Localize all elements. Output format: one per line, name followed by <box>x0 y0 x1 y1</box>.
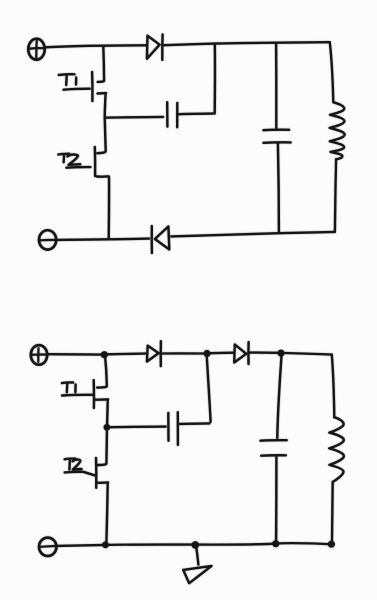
capacitor C3 (flying, bottom circuit) <box>110 357 210 445</box>
label T1 (top circuit) <box>59 74 90 89</box>
terminal V+ (bottom circuit) <box>31 345 47 365</box>
wire T2 drain lead (bottom circuit) <box>98 431 107 466</box>
junction node B (top rail, C3 tap) <box>203 350 210 357</box>
inductor L2 <box>329 417 344 482</box>
wire right rail upper (corner to L1) <box>330 42 334 102</box>
transistor T1 (top circuit) <box>92 72 106 117</box>
wire bottom-right (bottom corner to D2 triangle, node at C2 lead) <box>171 232 335 237</box>
capacitor C2 (output, top circuit) <box>263 43 290 233</box>
wire (V+ to node A, bottom circuit) <box>48 353 102 356</box>
wire right rail lower (L2 to node G) <box>331 482 334 541</box>
ground <box>183 547 211 584</box>
label T2 (top circuit) <box>58 154 90 168</box>
transistor T1 (bottom circuit) <box>94 380 108 424</box>
wire right rail lower (L1 to bottom wire) <box>335 159 336 232</box>
wire (node C to top-right corner, bottom circuit) <box>285 353 332 355</box>
junction node C (top rail, C4 tap) <box>277 350 284 357</box>
wire T1 drain lead (bottom circuit) <box>97 358 107 388</box>
terminal V- (top circuit) <box>39 230 56 249</box>
label T1 (bottom circuit) <box>62 382 94 395</box>
junction node A (top rail, T1 drain tap) <box>101 351 108 358</box>
diode D4 <box>234 342 248 364</box>
inductor L1 <box>330 102 345 159</box>
wire T1 drain lead (top circuit) <box>98 46 105 82</box>
wire bottom-left (V- to D2 bar, node at T2 source) <box>56 239 149 240</box>
junction node G (bottom rail right end) <box>328 541 335 548</box>
junction node D (bottom rail, T2 source tap) <box>102 541 109 548</box>
terminal V- (bottom circuit) <box>39 538 57 556</box>
diode D1 <box>147 35 163 60</box>
wire top (D1 cathode to top-right corner, node at C1 riser) <box>164 42 329 45</box>
wire bottom rail (V- to node G) <box>57 543 332 546</box>
terminal V+ (top circuit) <box>28 39 44 60</box>
capacitor C4 (output, bottom circuit) <box>260 356 286 542</box>
wire right rail upper (corner to L2, bottom circuit) <box>332 355 335 418</box>
wire (node A to D3 anode) <box>108 352 147 355</box>
wire top-left (V+ to D1 anode, node at T1 drain tap) <box>45 45 146 47</box>
junction node E (bottom rail, ground tap) <box>192 541 200 549</box>
wire T2 drain lead (top circuit) <box>97 117 105 153</box>
wire (D3 cathode to node B) <box>163 352 204 354</box>
transistor T2 (top circuit) <box>95 147 109 239</box>
capacitor C1 (flying, top circuit) <box>105 44 215 128</box>
junction node H (T1 source / C3 left / T2 drain) <box>104 424 111 431</box>
wire (D4 cathode to node C) <box>250 351 277 354</box>
diode D2 <box>152 226 170 253</box>
junction node F (bottom rail, C4 lead) <box>272 540 279 547</box>
wire (node B to D4 anode) <box>211 352 234 355</box>
diode D3 <box>147 341 161 366</box>
label T2 (bottom circuit) <box>65 459 95 476</box>
transistor T2 (bottom circuit) <box>96 458 108 543</box>
